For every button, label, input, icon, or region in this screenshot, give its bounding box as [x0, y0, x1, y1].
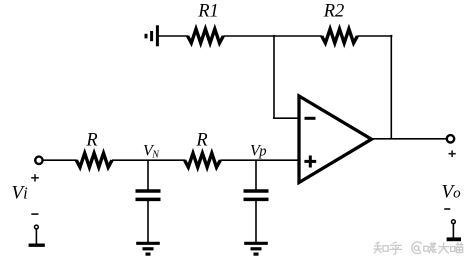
- svg-text:VN: VN: [143, 143, 160, 161]
- wire feedback vertical to output node: [390, 35, 392, 139]
- wire GND1 to R1: [159, 35, 189, 37]
- resistor R (second): [185, 130, 221, 167]
- terminal Vi+: [35, 157, 42, 164]
- svg-text:R1: R1: [197, 2, 219, 22]
- watermark 知乎 @嗷大喵 (drawn strokes): [374, 242, 464, 254]
- label + (output): [449, 150, 456, 157]
- terminal Vo+: [447, 135, 454, 142]
- 嗷: [424, 246, 428, 251]
- terminal Vo-: [447, 220, 461, 240]
- capacitor C1: [136, 191, 161, 199]
- wire op-amp output to terminal: [371, 138, 447, 140]
- resistor R1: [188, 2, 224, 44]
- ground GND2 (below C1): [136, 243, 160, 254]
- op-amp U1: [299, 96, 372, 183]
- 喵: [451, 247, 455, 252]
- label - (output): [444, 208, 450, 210]
- wire R2 to feedback corner: [357, 35, 392, 37]
- wire R1 to R2 (through node above inverting input): [223, 35, 322, 37]
- 知: [374, 242, 383, 254]
- capacitor C2: [244, 191, 269, 199]
- svg-text:R: R: [85, 130, 97, 150]
- capacitor C1 lead (node VN down): [147, 160, 149, 190]
- svg-text:R: R: [195, 130, 207, 150]
- terminal Vi-: [29, 225, 45, 245]
- svg-text:Vi: Vi: [12, 183, 29, 204]
- wire Vi+ to R: [43, 159, 77, 161]
- 乎: [389, 242, 402, 254]
- label - (input): [31, 213, 38, 215]
- svg-text:Vp: Vp: [250, 142, 267, 159]
- svg-text:Vo: Vo: [442, 182, 462, 203]
- resistor R (first): [76, 130, 112, 167]
- 大: [438, 242, 449, 253]
- wire to inverting input of op-amp: [273, 117, 299, 119]
- wire R to node VN: [112, 159, 185, 161]
- capacitor C2 lead (node Vp down): [255, 160, 257, 190]
- @: [412, 242, 422, 254]
- ground GND3 (below C2): [244, 243, 268, 254]
- ground GND1 (rotated, feeds R1): [146, 25, 157, 46]
- label + (input): [31, 174, 39, 181]
- wire C2 to ground: [255, 200, 257, 243]
- svg-text:R2: R2: [323, 2, 345, 22]
- wire junction down to inverting input: [273, 35, 275, 118]
- wire C1 to ground: [147, 200, 149, 243]
- wire R to node Vp and op-amp + input: [220, 159, 299, 161]
- resistor R2: [322, 2, 358, 44]
